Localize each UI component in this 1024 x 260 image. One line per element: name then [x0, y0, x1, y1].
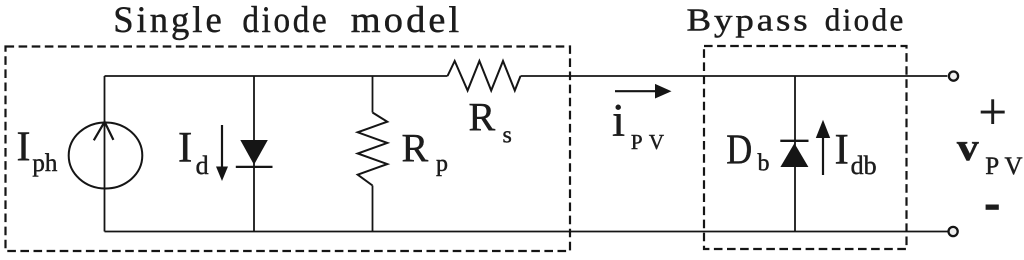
- label: minus sign: [986, 205, 999, 210]
- label: plus sign: [981, 99, 1005, 124]
- svg-text:p: p: [436, 151, 448, 177]
- wire: bottom rail: [105, 231, 949, 233]
- svg-text:Bypass: Bypass: [687, 1, 811, 37]
- svg-text:b: b: [758, 151, 770, 177]
- svg-text:I: I: [835, 126, 849, 173]
- wire: resistor Rp branch vertical bottom: [372, 186, 374, 232]
- svg-text:Single: Single: [113, 0, 225, 41]
- svg-text:d: d: [196, 151, 209, 180]
- dashed box: bypass diode boundary: [704, 46, 907, 249]
- svg-text:I: I: [17, 125, 31, 171]
- wire: top rail right (Rs to + terminal): [521, 75, 948, 77]
- svg-text:db: db: [851, 151, 877, 180]
- wire: top rail left (node A to Rs): [105, 75, 448, 77]
- wire: current source branch vertical: [104, 76, 106, 232]
- wire: bypass diode branch vertical: [794, 76, 796, 232]
- svg-text:ph: ph: [32, 150, 58, 177]
- current source I_ph circle: [69, 123, 143, 189]
- resistor Rs zigzag (horizontal): [448, 61, 521, 91]
- wire: resistor Rp branch vertical top: [372, 76, 374, 113]
- arrow: i_PV current arrow (right): [615, 90, 657, 92]
- svg-text:R: R: [402, 125, 429, 170]
- svg-text:v: v: [957, 126, 979, 169]
- wire: diode D1 branch vertical: [253, 76, 255, 232]
- label: Single diode model title: [113, 0, 462, 41]
- arrow: I_db current arrow (up): [822, 136, 824, 175]
- svg-text:PV: PV: [631, 130, 670, 154]
- svg-text:I: I: [178, 124, 192, 171]
- terminal: + output node: [949, 72, 958, 81]
- arrow: I_d current arrow (down): [221, 125, 223, 168]
- svg-text:diode: diode: [242, 0, 329, 41]
- svg-text:model: model: [351, 0, 463, 41]
- svg-text:PV: PV: [985, 153, 1024, 180]
- terminal: - output node: [949, 227, 958, 236]
- diode D1 (pointing down): [240, 140, 267, 165]
- diode D_b (pointing up): [780, 143, 808, 167]
- svg-text:D: D: [726, 128, 752, 174]
- svg-text:diode: diode: [825, 1, 906, 37]
- label: Bypass diode title: [687, 1, 906, 37]
- current source I_ph arrowhead (open V pointing up): [94, 122, 114, 141]
- svg-text:R: R: [469, 94, 496, 139]
- svg-text:i: i: [612, 94, 625, 146]
- svg-text:s: s: [503, 123, 512, 149]
- dashed box: single diode model boundary: [6, 47, 571, 252]
- resistor Rp zigzag: [358, 113, 388, 186]
